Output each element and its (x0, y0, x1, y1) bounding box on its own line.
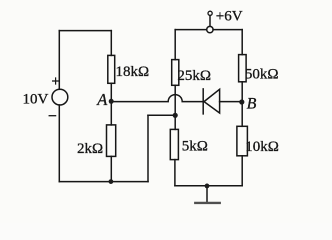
wire diode to node B (220, 101, 243, 103)
wire bottom-left horizontal (59, 181, 148, 183)
node A junction dot (109, 99, 114, 104)
resistor 25k body (172, 60, 179, 86)
wire row A with hop over 25k branch (111, 95, 203, 102)
source V1 10V circle (52, 89, 68, 105)
wire 10k bottom lead (241, 156, 243, 186)
wire 2k bottom lead (110, 156, 112, 181)
wire mid stub horizontal (148, 114, 175, 116)
svg-text:5kΩ: 5kΩ (182, 139, 208, 155)
resistor 18k body (108, 55, 115, 83)
wire bottom-right horizontal (175, 185, 242, 187)
svg-text:50kΩ: 50kΩ (245, 67, 279, 83)
junction dot mid stub (173, 113, 178, 118)
terminal circle on wire (207, 26, 213, 32)
wire top-left horizontal (59, 30, 111, 32)
diode D triangle (204, 89, 220, 113)
wire 50k bottom through node B to 10k top (241, 82, 243, 127)
source plus sign (53, 78, 59, 84)
junction dot 2k bottom (109, 179, 114, 184)
svg-text:10V: 10V (23, 92, 49, 108)
svg-text:25kΩ: 25kΩ (177, 68, 211, 84)
svg-text:18kΩ: 18kΩ (116, 64, 150, 80)
junction dot ground (205, 184, 210, 189)
wire top-right horizontal right part (213, 29, 242, 31)
terminal stem (209, 16, 211, 27)
ground bar (195, 202, 219, 204)
terminal small circle (208, 11, 212, 15)
resistor 50k body (239, 55, 247, 82)
wire 25k branch top lead (174, 30, 176, 60)
wire right branch upper lead (241, 30, 243, 55)
wire 18k branch top lead (110, 31, 112, 56)
wire left branch lower (58, 105, 60, 182)
svg-text:10kΩ: 10kΩ (245, 139, 279, 155)
resistor 10k body (237, 126, 248, 156)
resistor 5k body (170, 129, 178, 159)
wire left branch upper (58, 31, 60, 90)
source minus sign (49, 115, 55, 117)
svg-text:A: A (96, 90, 108, 109)
svg-text:B: B (247, 95, 257, 112)
ground stem (206, 186, 208, 202)
wire 5k bottom lead (174, 160, 176, 186)
wire mid stub vertical (147, 115, 149, 181)
svg-text:2kΩ: 2kΩ (77, 141, 103, 157)
wire 25k bottom through junction to 5k top (174, 85, 176, 129)
svg-text:+6V: +6V (216, 8, 243, 24)
node B junction dot (239, 99, 244, 104)
wire top-right horizontal left part (175, 29, 207, 31)
wire 18k bottom to 2k top (through node A) (110, 83, 112, 125)
resistor 2k body (107, 125, 116, 156)
diode D cathode bar (202, 89, 204, 114)
